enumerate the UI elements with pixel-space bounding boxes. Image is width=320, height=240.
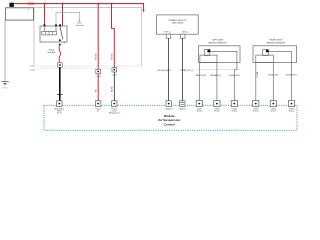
svg-text:Sensor: Sensor: [196, 111, 202, 113]
svg-text:GY-BU (RT): GY-BU (RT): [229, 75, 240, 77]
svg-text:GY-BU (S): GY-BU (S): [268, 74, 278, 76]
svg-text:Ground: Ground: [76, 24, 84, 27]
svg-text:VT-GY (-): VT-GY (-): [184, 70, 193, 72]
svg-text:BK-BN (S): BK-BN (S): [211, 75, 221, 77]
svg-text:CONNECTOR (FOR: CONNECTOR (FOR: [168, 20, 187, 22]
svg-text:VT-BK: VT-BK: [257, 71, 259, 77]
svg-text:C4042: C4042: [96, 76, 101, 78]
svg-text:LEFT SIDE: LEFT SIDE: [212, 40, 224, 42]
svg-text:GN Co.: GN Co.: [182, 31, 189, 33]
svg-text:GY-BU (RT): GY-BU (RT): [285, 74, 296, 76]
svg-text:HEIGHT SENSOR: HEIGHT SENSOR: [208, 42, 226, 44]
svg-text:C4045: C4045: [112, 75, 117, 77]
svg-text:RIGHT SIDE: RIGHT SIDE: [270, 40, 283, 42]
svg-text:C135B: C135B: [29, 69, 35, 71]
svg-text:HEIGHT SENSOR: HEIGHT SENSOR: [267, 42, 285, 44]
svg-text:SB 30A: SB 30A: [94, 53, 97, 60]
svg-text:C135: C135: [30, 66, 34, 68]
svg-text:(Part): (Part): [57, 112, 62, 115]
svg-text:+: +: [28, 7, 30, 11]
svg-text:Sensor: Sensor: [253, 111, 259, 113]
svg-text:Sensor: Sensor: [214, 111, 220, 113]
svg-text:GY-OG (+): GY-OG (+): [157, 70, 167, 72]
svg-text:G100: G100: [3, 88, 7, 90]
svg-text:Return: Return: [232, 110, 237, 113]
svg-text:C4045-21: C4045-21: [178, 108, 186, 110]
svg-text:Return: Return: [289, 110, 294, 113]
svg-text:RM Co.: RM Co.: [164, 31, 171, 33]
svg-text:BK RD: BK RD: [112, 86, 114, 92]
svg-text:Sensor: Sensor: [270, 111, 276, 113]
svg-text:Control: Control: [164, 122, 175, 126]
svg-text:Management: Management: [109, 112, 120, 115]
svg-text:C4045-17: C4045-17: [165, 108, 173, 110]
svg-text:Box Asy: Box Asy: [48, 51, 57, 54]
svg-text:SB 20A: SB 20A: [111, 53, 114, 60]
svg-text:WH-OG (V): WH-OG (V): [195, 75, 206, 77]
svg-text:CAN C BUS): CAN C BUS): [172, 22, 184, 25]
svg-text:B+: B+: [97, 111, 99, 113]
